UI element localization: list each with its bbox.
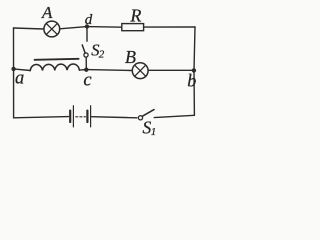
wire R to top-right corner — [144, 26, 195, 28]
battery cell 1 short plate — [69, 111, 71, 122]
svg-text:c: c — [83, 71, 92, 91]
svg-text:b: b — [187, 70, 196, 90]
wire right side (b on it) — [194, 27, 195, 115]
wire c to lamp B — [86, 69, 132, 72]
switch S1 pivot — [138, 116, 142, 120]
wire a to inductor — [14, 69, 31, 71]
wire d to S2 — [86, 27, 88, 42]
battery dashed gap — [76, 116, 86, 118]
svg-text:1: 1 — [151, 126, 157, 138]
svg-text:A: A — [41, 3, 53, 22]
lamp B — [132, 63, 148, 79]
switch S1 blade — [142, 110, 154, 117]
wire S1 to bottom-right corner — [154, 115, 194, 117]
svg-text:2: 2 — [99, 49, 105, 61]
wire inductor to c — [79, 69, 86, 72]
wire lamp A to d to R — [60, 27, 122, 29]
svg-text:a: a — [15, 68, 24, 88]
wire battery to S1 — [92, 117, 137, 118]
wire lamp B to b — [148, 69, 194, 71]
lamp A — [44, 21, 60, 37]
switch S2 blade — [82, 45, 85, 53]
node b — [192, 68, 196, 72]
svg-text:R: R — [129, 5, 141, 25]
node d — [85, 24, 89, 28]
battery cell 2 long plate — [90, 106, 92, 127]
svg-text:d: d — [85, 12, 93, 28]
battery cell 2 short plate — [86, 111, 88, 122]
inductor core bar — [35, 59, 79, 60]
wire top-left — [14, 28, 44, 29]
switch S2 pivot — [84, 53, 88, 57]
wire S2 to c — [85, 57, 87, 69]
wire left side (a on it) — [13, 28, 15, 118]
wire bottom-left to battery — [14, 117, 69, 118]
node a — [11, 67, 15, 71]
inductor coil — [30, 64, 79, 71]
resistor R — [122, 24, 144, 31]
battery cell 1 long plate — [72, 106, 74, 127]
svg-text:B: B — [125, 47, 136, 67]
node c — [84, 68, 88, 72]
